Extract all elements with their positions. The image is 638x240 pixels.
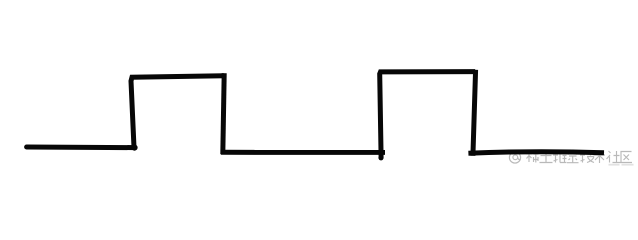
- wire: rising edge 2 with overshoot blob below baseline: [380, 72, 476, 158]
- node: pen blob at junction of baseline and rising edge 1: [131, 145, 137, 151]
- glyph 术: [594, 151, 606, 164]
- glyph 金: [567, 151, 579, 163]
- glyph 社: [607, 151, 621, 163]
- glyph 掘: [553, 151, 567, 163]
- glyph 稀: [526, 150, 539, 162]
- glyph 土: [540, 151, 553, 163]
- glyph 区: [621, 152, 632, 163]
- glyph @: [509, 152, 520, 163]
- wire: low segment 1 (baseline left): [27, 145, 134, 151]
- glyph 技: [580, 151, 595, 163]
- wire: low segment 2 (between pulses): [221, 150, 385, 155]
- watermark "@稀土掘金技术社区" drawn as vector glyphs: [509, 150, 632, 163]
- wire: falling edge 2 with overshoot above top: [473, 70, 476, 156]
- node: pen blob below junction of rising edge 2: [378, 155, 383, 160]
- wire: pulse 1 (rising edge, top, falling edge): [131, 76, 224, 148]
- wire: low segment 3 (right tail): [468, 152, 604, 153]
- watermark tiny sub-caption under 社区: [609, 164, 620, 166]
- wire: falling edge 1 with overshoot above top: [223, 73, 224, 154]
